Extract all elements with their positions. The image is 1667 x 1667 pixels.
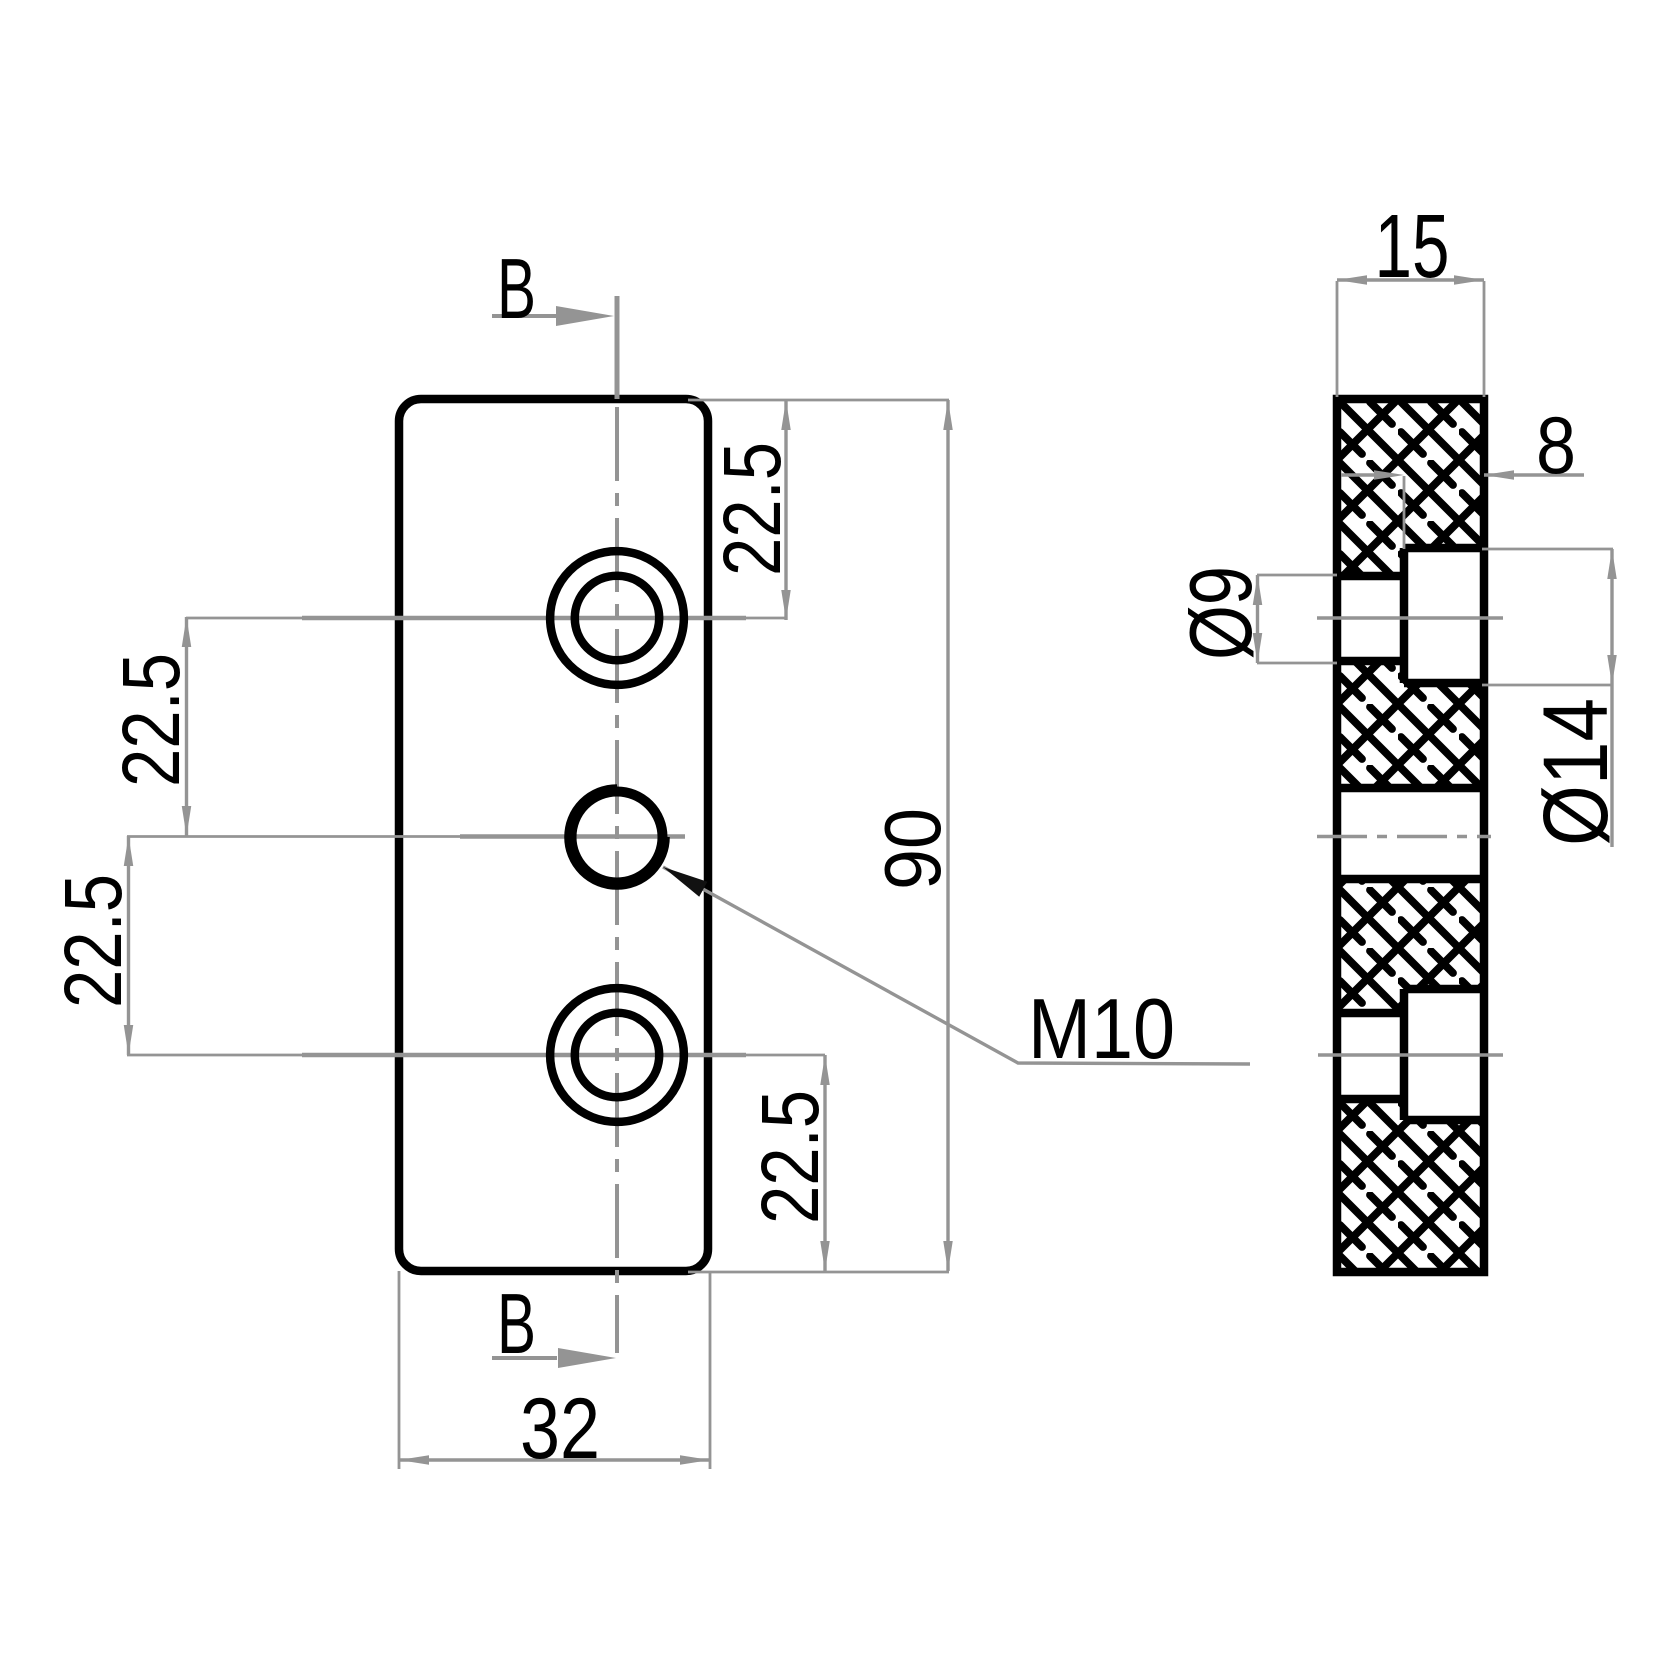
svg-text:Ø9: Ø9	[1171, 566, 1270, 660]
dimension 15 line and arrows	[1337, 278, 1484, 281]
middle hole M10 edges (section)	[1337, 784, 1484, 793]
svg-text:22.5: 22.5	[745, 1090, 836, 1224]
dimension O9 line and arrows	[1256, 575, 1259, 663]
dimension O9 extension lines	[1257, 574, 1337, 577]
svg-text:32: 32	[520, 1381, 600, 1477]
svg-text:Ø14: Ø14	[1525, 698, 1627, 846]
dimension 8 (counterbore depth) lines and arrows	[1341, 473, 1376, 476]
M10 leader line	[663, 867, 1250, 1064]
top hole: counterbore circle (O14)	[550, 551, 684, 685]
top hole horizontal centerline	[186, 617, 786, 620]
side view middle hole centerline	[1317, 835, 1491, 839]
svg-text:8: 8	[1536, 401, 1576, 491]
dimension 22.5 (bottom right) line and arrows	[823, 1055, 826, 1271]
bottom hole O9 bore edges (section)	[1337, 1009, 1404, 1018]
svg-text:15: 15	[1375, 197, 1450, 297]
svg-text:B: B	[497, 242, 536, 337]
dimension 32 extension lines	[398, 1271, 401, 1469]
dimension O14 line and arrows	[1610, 549, 1613, 847]
svg-text:B: B	[497, 1277, 536, 1372]
middle hole horizontal centerline	[127, 835, 685, 838]
extension line bottom edge to 90 dim	[688, 1271, 949, 1274]
extension line top edge to 90/22.5 dims	[688, 399, 949, 402]
svg-text:22.5: 22.5	[106, 653, 197, 787]
dimension 8 extension line	[1403, 476, 1406, 549]
bottom hole: counterbore circle (O14)	[550, 988, 684, 1122]
middle hole M10: thread major diameter thin 3/4 arc	[566, 786, 668, 888]
dimension O14 extension lines	[1482, 548, 1613, 551]
side view bottom hole centerline	[1318, 1053, 1503, 1057]
bottom hole horizontal centerline	[127, 1054, 825, 1057]
M10 leader arrowhead	[663, 867, 707, 897]
dimension 22.5 (top right) line and arrows	[784, 400, 787, 620]
side view top hole centerline	[1317, 616, 1503, 620]
svg-text:M10: M10	[1028, 982, 1175, 1077]
section line solid segment above plate	[615, 296, 620, 399]
dimension 90 line and arrows	[946, 400, 949, 1271]
section arrow B (top)	[492, 314, 557, 318]
top hole: through hole circle (O9)	[575, 576, 659, 660]
svg-text:22.5: 22.5	[707, 442, 798, 576]
dimension 15 extension lines	[1336, 281, 1339, 397]
bottom hole counterbore O14 edges (section)	[1404, 985, 1484, 994]
dimension 32 line and arrows	[399, 1458, 710, 1461]
top hole counterbore O14 edges (section)	[1404, 544, 1484, 553]
top hole O9 bore edges (section)	[1337, 572, 1404, 581]
svg-text:90: 90	[868, 808, 957, 890]
section view outline (15 x 90 plate section)	[1337, 399, 1484, 1272]
section view hatched areas	[1337, 399, 1484, 548]
plate outline (front view, 32x90)	[399, 399, 708, 1271]
dimension 22.5 (left upper) line and arrows	[185, 617, 188, 836]
vertical centerline / section cut line B-B	[615, 296, 619, 1353]
section arrow B (bottom)	[492, 1356, 557, 1360]
svg-text:22.5: 22.5	[48, 874, 139, 1008]
dimension 22.5 (left lower) line and arrows	[127, 836, 130, 1055]
middle hole M10: tap drill circle (thick)	[572, 792, 663, 883]
bottom hole: through hole circle (O9)	[575, 1013, 659, 1097]
